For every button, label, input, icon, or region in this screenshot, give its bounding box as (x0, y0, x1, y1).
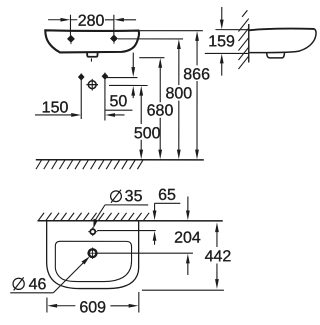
dim 204 lower arrow (186, 254, 190, 264)
dim 500 line (139, 86, 143, 96)
plan view tap hole (90, 229, 95, 234)
plan view wall hatching (38, 213, 149, 221)
level line at faucet height (109, 84, 148, 86)
mounting hole diamond left (front view) (68, 36, 74, 42)
svg-text:280: 280 (78, 13, 105, 30)
svg-text:65: 65 (158, 187, 176, 204)
floor hatching (36, 160, 143, 169)
tap hole extension line (97, 230, 156, 232)
side view wall face line (248, 24, 250, 62)
front view drain tab (87, 52, 98, 56)
label diameter 46 (13, 278, 24, 289)
dim 280 right extension line (113, 15, 115, 36)
faucet axis symbol (circle-cross) (88, 81, 96, 89)
svg-text:159: 159 (208, 33, 235, 50)
svg-text:35: 35 (125, 188, 143, 205)
svg-text:46: 46 (29, 276, 47, 293)
dim 65 shelf (155, 202, 181, 204)
side view wall hatching (238, 10, 248, 69)
dim 204 upper arrow (187, 197, 189, 212)
dim 609 left extension (46, 297, 48, 312)
dim 65 upper arrow (154, 203, 156, 211)
dim 280 left extension line (69, 15, 71, 36)
svg-text:150: 150 (42, 99, 69, 116)
side view drain tab (267, 53, 285, 58)
front view basin outline (45, 30, 139, 52)
dim 159 bottom line (205, 52, 249, 54)
dim 50 upper arrow (down) (132, 53, 134, 68)
dim 280 line with outside arrows (48, 19, 61, 21)
dim 150 line and outside arrows (35, 114, 72, 116)
svg-text:442: 442 (205, 248, 232, 265)
extension line drain level (139, 57, 164, 59)
svg-text:500: 500 (134, 125, 161, 142)
dim 65 lower arrow (153, 231, 157, 241)
svg-text:866: 866 (183, 66, 210, 83)
dim 800 line (177, 39, 181, 49)
side view basin profile front and bottom (250, 29, 317, 53)
svg-text:800: 800 (165, 85, 192, 102)
mounting hole diamond right (front view) (111, 35, 117, 41)
floor line (36, 159, 204, 161)
dim 680 line (158, 58, 162, 68)
dim 442 line (215, 222, 219, 232)
dim 159 upper arrow (221, 7, 223, 20)
svg-text:680: 680 (147, 102, 174, 119)
dim 159 lower arrow (220, 54, 224, 64)
plan view wall line (37, 220, 222, 222)
dim 609 right extension (138, 292, 140, 313)
dim 159 top line (215, 29, 248, 31)
fixing point diamond left lower (80, 74, 82, 119)
extension line basin top level (140, 30, 203, 32)
front view drain tick (90, 58, 92, 61)
plan view drain hole (89, 249, 97, 257)
label diameter 35 (111, 191, 122, 202)
plan view inner bowl (55, 241, 131, 281)
dim 609 line (47, 304, 57, 308)
fixing point diamond right lower (104, 73, 106, 121)
drain extension line (97, 252, 193, 254)
svg-text:609: 609 (79, 299, 106, 316)
dim 50 lower arrow (up) (131, 86, 135, 96)
side view basin profile top (249, 29, 314, 31)
svg-text:204: 204 (174, 230, 201, 247)
extension line fixing holes level (118, 38, 183, 40)
dim 50 bracket (105, 109, 132, 111)
dim 866 line (195, 31, 199, 41)
plan view basin outer outline (47, 221, 139, 289)
front edge extension line (142, 289, 224, 291)
level line at fixing holes (107, 77, 138, 79)
svg-text:50: 50 (110, 93, 128, 110)
